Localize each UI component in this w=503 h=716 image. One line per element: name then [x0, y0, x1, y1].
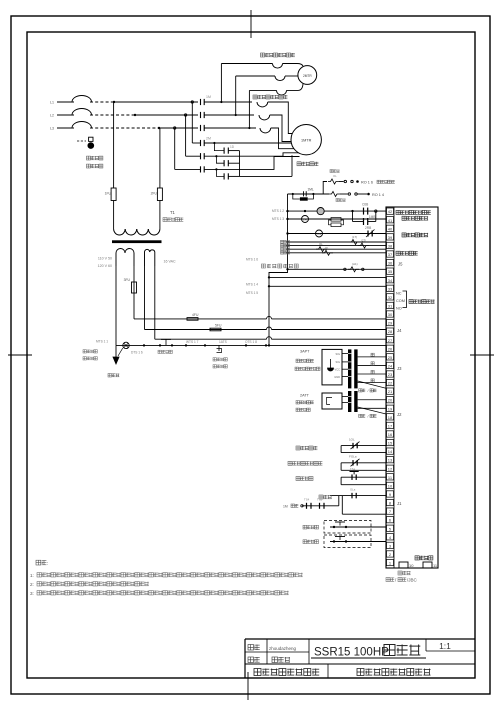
svg-text:zhoudazheng: zhoudazheng	[269, 646, 297, 651]
svg-text:33: 33	[388, 286, 393, 291]
svg-text:21: 21	[388, 389, 393, 394]
svg-text:30: 30	[388, 312, 393, 317]
svg-text:2M: 2M	[206, 137, 211, 141]
svg-text:2RB: 2RB	[365, 226, 371, 230]
svg-text:40: 40	[388, 226, 393, 231]
svg-text:1M: 1M	[283, 505, 288, 509]
svg-text:2ATT: 2ATT	[300, 394, 310, 398]
svg-text:10: 10	[409, 563, 414, 568]
svg-text:3:: 3:	[30, 591, 34, 596]
svg-text:J5: J5	[398, 262, 403, 267]
svg-text:18: 18	[388, 415, 393, 420]
svg-text:MTS 1 5: MTS 1 5	[246, 291, 258, 295]
svg-text:L2: L2	[50, 114, 54, 118]
svg-text:37: 37	[388, 252, 393, 257]
svg-text:SIG: SIG	[336, 352, 340, 356]
svg-text:2:: 2:	[30, 582, 34, 587]
svg-text:34: 34	[388, 278, 393, 283]
svg-text:29: 29	[388, 321, 393, 326]
svg-text:17: 17	[388, 423, 393, 428]
svg-text:COM: COM	[396, 299, 405, 303]
svg-text:OL: OL	[325, 246, 329, 250]
svg-text:1FU: 1FU	[105, 192, 112, 196]
svg-text:3FU: 3FU	[124, 278, 131, 282]
svg-text:12: 12	[388, 466, 393, 471]
svg-text:TS4: TS4	[304, 498, 310, 502]
svg-text:110 V 50: 110 V 50	[98, 257, 112, 261]
svg-text:1:1: 1:1	[439, 641, 451, 651]
svg-text:FOLa: FOLa	[349, 455, 357, 459]
svg-text:1OL: 1OL	[349, 438, 355, 442]
svg-text:MTS 1 2: MTS 1 2	[272, 209, 284, 213]
svg-text:4FU: 4FU	[192, 313, 199, 317]
svg-text:L1: L1	[50, 101, 54, 105]
svg-text:OLa: OLa	[350, 488, 356, 492]
svg-text:36: 36	[388, 261, 393, 266]
svg-text:5FU: 5FU	[215, 324, 222, 328]
svg-text:16 VAC: 16 VAC	[164, 260, 177, 264]
svg-text:20: 20	[388, 398, 393, 403]
svg-text:35: 35	[388, 269, 393, 274]
svg-text:MTS 1 3: MTS 1 3	[272, 217, 284, 221]
svg-text:RO 1 4: RO 1 4	[372, 193, 384, 197]
svg-text:SSR15 100HP: SSR15 100HP	[314, 647, 389, 659]
svg-text:/JBC: /JBC	[407, 578, 418, 583]
svg-text:14: 14	[388, 449, 393, 454]
svg-text:GND: GND	[334, 375, 340, 379]
svg-text:39: 39	[388, 235, 393, 240]
svg-text:13: 13	[388, 458, 393, 463]
svg-text:OL: OL	[333, 174, 337, 178]
svg-text:38: 38	[388, 243, 393, 248]
svg-text:23: 23	[388, 372, 393, 377]
svg-text:J1: J1	[397, 501, 402, 506]
svg-text:J2: J2	[397, 412, 402, 417]
svg-text:120 V 60: 120 V 60	[98, 264, 112, 268]
svg-text:1ATS: 1ATS	[219, 340, 227, 344]
svg-text:32: 32	[388, 295, 393, 300]
svg-text:26: 26	[388, 346, 393, 351]
svg-text:OL: OL	[319, 242, 323, 246]
svg-text:MTS 1 1: MTS 1 1	[96, 339, 108, 343]
svg-text:NO: NO	[396, 307, 402, 311]
svg-text:MTS 1 6: MTS 1 6	[246, 258, 258, 262]
svg-text:1MB: 1MB	[369, 215, 376, 219]
svg-text:MTS 1 4: MTS 1 4	[246, 283, 258, 287]
svg-text:J3: J3	[397, 366, 402, 371]
svg-text:OTS 1 8: OTS 1 8	[245, 340, 257, 344]
svg-text:2FU: 2FU	[151, 192, 158, 196]
svg-text:C6B: C6B	[362, 203, 368, 207]
svg-text:DTS 1 6: DTS 1 6	[131, 350, 143, 354]
svg-text:42: 42	[388, 209, 393, 214]
svg-text:SIG: SIG	[336, 360, 340, 364]
svg-text:(2T): (2T)	[361, 239, 366, 243]
svg-text:1:: 1:	[30, 573, 34, 578]
svg-text:28: 28	[388, 329, 393, 334]
svg-text:L3: L3	[50, 127, 54, 131]
svg-text:RO 1 6: RO 1 6	[361, 180, 373, 184]
svg-text:VCC: VCC	[335, 368, 341, 372]
svg-text:41: 41	[388, 218, 393, 223]
svg-text::: :	[47, 561, 48, 567]
svg-text:TS5: TS5	[317, 498, 323, 502]
svg-text:16: 16	[388, 432, 393, 437]
svg-text:1M: 1M	[206, 95, 211, 99]
svg-text:1S: 1S	[317, 232, 321, 236]
svg-text:19: 19	[388, 406, 393, 411]
svg-text:1ML: 1ML	[308, 188, 314, 192]
svg-text:31: 31	[388, 303, 393, 308]
svg-text:/: /	[368, 415, 369, 419]
svg-text:3APT: 3APT	[300, 350, 310, 354]
svg-text:27: 27	[388, 338, 393, 343]
svg-text:NC: NC	[396, 292, 402, 296]
svg-text:(1T): (1T)	[352, 235, 357, 239]
svg-text:T1: T1	[170, 210, 176, 215]
svg-text:WTS 1 7: WTS 1 7	[186, 340, 199, 344]
svg-text:/: /	[368, 389, 369, 393]
svg-text:22: 22	[388, 381, 393, 386]
svg-text:TSa: TSa	[350, 467, 356, 471]
svg-text:10: 10	[388, 483, 393, 488]
svg-text:2MTR: 2MTR	[303, 74, 312, 78]
svg-text:25: 25	[388, 355, 393, 360]
svg-text:15: 15	[388, 441, 393, 446]
svg-text:1D: 1D	[230, 145, 235, 149]
svg-text:1MTR: 1MTR	[301, 139, 312, 143]
svg-text:(A1): (A1)	[352, 262, 358, 266]
svg-text:J4: J4	[397, 328, 402, 333]
svg-text:24: 24	[388, 363, 393, 368]
